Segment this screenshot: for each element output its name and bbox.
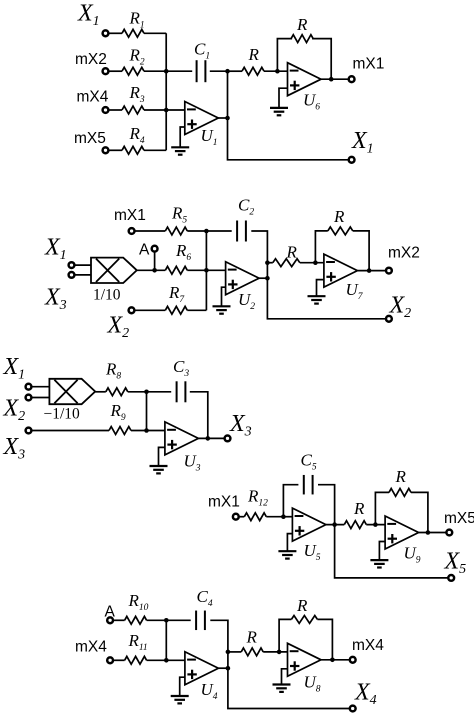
svg-text:U1: U1 (201, 126, 218, 148)
svg-text:R: R (296, 15, 308, 34)
svg-text:X5: X5 (444, 549, 467, 578)
svg-text:R9: R9 (110, 401, 126, 423)
svg-text:U2: U2 (238, 290, 255, 312)
svg-text:C1: C1 (194, 40, 210, 62)
svg-text:X2: X2 (107, 313, 130, 342)
svg-text:R: R (353, 499, 365, 518)
svg-text:R2: R2 (129, 46, 145, 68)
svg-text:R: R (246, 628, 258, 647)
svg-text:U3: U3 (184, 452, 201, 474)
svg-text:X2: X2 (389, 293, 412, 322)
svg-text:X1: X1 (44, 235, 67, 264)
svg-text:C4: C4 (197, 587, 213, 609)
svg-text:mX4: mX4 (75, 639, 107, 656)
svg-text:X3: X3 (229, 411, 252, 440)
svg-text:mX5: mX5 (444, 510, 474, 527)
svg-text:R12: R12 (247, 487, 268, 509)
svg-text:R7: R7 (168, 283, 185, 305)
svg-text:R: R (286, 243, 298, 262)
svg-text:U5: U5 (304, 541, 321, 563)
svg-text:R8: R8 (105, 360, 121, 382)
svg-text:mX1: mX1 (208, 494, 240, 511)
svg-text:X3: X3 (3, 434, 26, 463)
svg-text:mX1: mX1 (114, 207, 146, 224)
svg-text:R: R (248, 45, 260, 64)
svg-text:X2: X2 (3, 396, 26, 425)
svg-text:U9: U9 (404, 544, 421, 566)
svg-text:X4: X4 (354, 680, 377, 709)
svg-text:−1/10: −1/10 (44, 406, 81, 423)
svg-text:mX5: mX5 (74, 130, 106, 147)
svg-text:R1: R1 (129, 9, 145, 31)
svg-text:1/10: 1/10 (93, 287, 121, 304)
svg-text:R10: R10 (128, 591, 149, 613)
svg-text:C2: C2 (238, 196, 254, 218)
svg-text:R5: R5 (171, 204, 187, 226)
svg-text:R: R (395, 467, 407, 486)
svg-text:R: R (333, 207, 345, 226)
svg-text:C5: C5 (301, 451, 317, 473)
svg-text:mX1: mX1 (353, 56, 385, 73)
svg-text:A: A (139, 242, 150, 259)
svg-text:R11: R11 (128, 631, 148, 653)
svg-text:C3: C3 (173, 357, 189, 379)
svg-text:R4: R4 (129, 124, 145, 146)
svg-text:X1: X1 (351, 128, 374, 157)
svg-text:mX4: mX4 (77, 89, 109, 106)
svg-text:X3: X3 (44, 285, 67, 314)
svg-text:mX4: mX4 (352, 637, 384, 654)
svg-text:mX2: mX2 (388, 245, 420, 262)
svg-text:U6: U6 (303, 91, 320, 113)
svg-text:R3: R3 (129, 83, 145, 105)
svg-text:U8: U8 (304, 673, 321, 695)
svg-text:U7: U7 (346, 280, 364, 302)
svg-text:X1: X1 (3, 354, 26, 383)
svg-text:mX2: mX2 (75, 51, 107, 68)
svg-text:R: R (296, 596, 308, 615)
svg-text:U4: U4 (201, 680, 218, 702)
svg-text:X1: X1 (77, 1, 100, 30)
svg-text:R6: R6 (175, 241, 191, 263)
